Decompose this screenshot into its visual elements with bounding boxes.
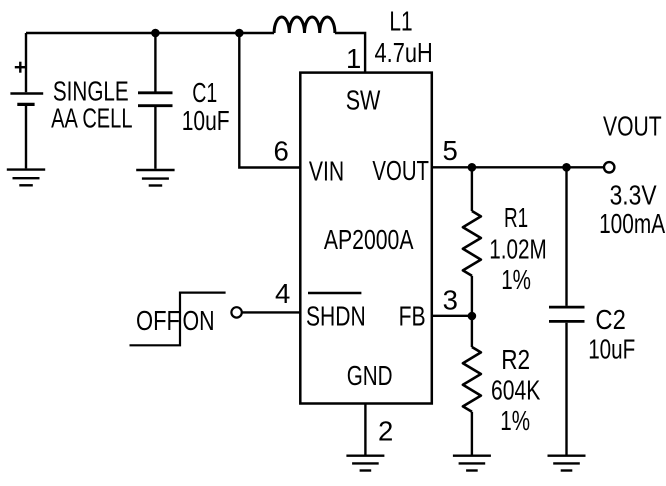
node B (top rail / VIN feed)	[235, 29, 244, 38]
svg-text:FB: FB	[399, 301, 426, 332]
resistor R2	[463, 316, 481, 455]
svg-text:10uF: 10uF	[182, 105, 230, 136]
svg-text:3: 3	[443, 285, 458, 316]
capacitor C1 top lead	[154, 33, 156, 92]
capacitor C1 plates	[138, 93, 173, 106]
wire VIN feed: down and into pin 6	[239, 33, 300, 168]
ground (battery)	[7, 170, 45, 186]
svg-text:VOUT: VOUT	[372, 155, 429, 186]
svg-text:VOUT: VOUT	[603, 110, 662, 141]
svg-text:100mA: 100mA	[599, 208, 665, 239]
battery B1 plates (SINGLE AA CELL)	[10, 94, 43, 105]
svg-text:3.3V: 3.3V	[610, 180, 658, 211]
SHDN overline	[308, 292, 361, 294]
svg-text:R2: R2	[501, 344, 530, 375]
svg-text:1%: 1%	[500, 405, 530, 436]
svg-text:GND: GND	[347, 360, 393, 391]
svg-text:6: 6	[274, 135, 289, 166]
ground (R2)	[453, 456, 491, 471]
svg-text:1.02M: 1.02M	[489, 233, 547, 264]
svg-text:VIN: VIN	[309, 156, 344, 187]
inductor L1	[274, 17, 335, 33]
wire SW: from inductor into pin 1	[335, 33, 365, 73]
switch waveform OFF/ON	[130, 293, 226, 346]
wire FB: pin 3 to node E	[432, 315, 472, 317]
svg-text:SW: SW	[346, 84, 381, 115]
svg-text:AP2000A: AP2000A	[324, 224, 414, 255]
svg-text:R1: R1	[504, 202, 528, 233]
node D (VOUT / C2)	[562, 163, 571, 172]
ground (IC pin 2)	[346, 456, 384, 471]
battery plus sign	[15, 62, 26, 73]
capacitor C2 plates	[549, 307, 585, 321]
SHDN input terminal circle	[231, 307, 241, 317]
battery B1 negative lead	[25, 106, 27, 169]
svg-text:OFF: OFF	[136, 305, 180, 336]
svg-text:4.7uH: 4.7uH	[375, 37, 433, 68]
wire GND: pin 2 to ground	[364, 404, 366, 456]
capacitor C2 top lead	[565, 167, 567, 306]
svg-text:1: 1	[346, 43, 361, 74]
wire VOUT rail: pin 5 to output terminal	[432, 166, 604, 168]
svg-text:2: 2	[378, 416, 393, 447]
wire SHDN: terminal to pin 4	[242, 311, 300, 313]
op-amp U1 AP2000A body	[300, 73, 432, 404]
svg-text:ON: ON	[183, 305, 215, 336]
svg-text:604K: 604K	[491, 375, 541, 406]
node A (top rail / C1)	[151, 29, 160, 38]
resistor R1	[463, 167, 481, 315]
svg-text:L1: L1	[389, 6, 412, 37]
ground (C2)	[548, 456, 586, 471]
svg-text:SHDN: SHDN	[306, 301, 366, 332]
wire top rail from battery to inductor	[26, 32, 274, 34]
svg-text:10uF: 10uF	[588, 334, 635, 365]
svg-text:AA CELL: AA CELL	[51, 102, 132, 133]
output terminal circle	[604, 162, 614, 172]
node E (FB / R1 / R2)	[468, 312, 477, 321]
node C (VOUT / R1)	[468, 163, 477, 172]
svg-text:C2: C2	[595, 304, 625, 335]
ground (C1)	[136, 170, 174, 186]
capacitor C2 bottom lead	[565, 323, 567, 455]
capacitor C1 bottom lead	[154, 107, 156, 169]
svg-text:4: 4	[275, 278, 290, 309]
svg-text:C1: C1	[192, 77, 217, 108]
svg-text:5: 5	[443, 135, 458, 166]
battery B1 positive lead	[25, 33, 27, 92]
svg-text:1%: 1%	[501, 264, 531, 295]
